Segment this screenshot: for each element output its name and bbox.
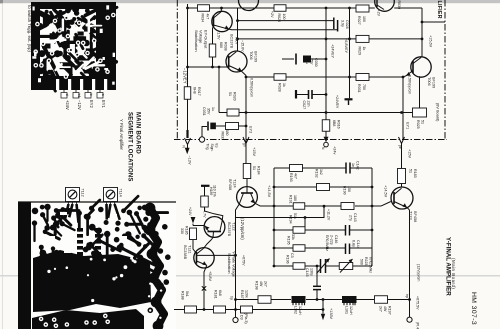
svg-text:C144: C144	[356, 240, 360, 249]
svg-text:gn: gn	[243, 143, 247, 147]
wire rail B x372	[371, 168, 373, 266]
svg-text:ye: ye	[398, 145, 402, 149]
resistor R038	[209, 44, 216, 57]
resistor R197 2k7 4W	[375, 296, 388, 304]
svg-text:C030: C030	[314, 58, 318, 67]
svg-text:4W: 4W	[383, 306, 387, 312]
wire divider line down to D3	[235, 218, 237, 318]
svg-text:EY1: EY1	[406, 122, 410, 129]
svg-text:R038: R038	[224, 42, 228, 51]
resistor R188	[185, 306, 197, 313]
wire T121 base row	[197, 254, 236, 256]
wire +6,8VEY rail	[349, 8, 351, 77]
resistor R026	[274, 5, 286, 12]
transistor T008 BF199	[403, 57, 431, 77]
wire ladder row5	[274, 229, 293, 231]
svg-text:(Pl.4): (Pl.4)	[416, 322, 420, 329]
svg-text:6B8: 6B8	[332, 120, 336, 126]
capacitor C028	[333, 18, 335, 30]
resistor R017 on -12V rail	[184, 87, 191, 100]
measuring point +5,8V	[202, 286, 206, 290]
resistor R029	[356, 35, 369, 42]
capacitor C027	[295, 90, 297, 99]
svg-text:C143: C143	[353, 213, 357, 222]
wire -12V rail vertical	[187, 4, 189, 131]
svg-text:R193: R193	[289, 173, 293, 182]
resistor R196	[293, 263, 305, 270]
svg-text:+2V: +2V	[377, 10, 381, 17]
diode point D4	[407, 317, 412, 322]
svg-text:d: d	[65, 94, 69, 96]
svg-text:ПЛ0,5MHz: ПЛ0,5MHz	[325, 235, 329, 251]
svg-text:180: 180	[293, 195, 297, 201]
svg-text:100: 100	[362, 16, 366, 22]
svg-text:R181: R181	[214, 290, 218, 299]
capacitor C029 on +6,8VEY rail	[349, 77, 351, 98]
node +135V junction lower	[322, 308, 325, 311]
svg-text:+24VEY: +24VEY	[335, 95, 339, 109]
wire ladder row7	[274, 265, 293, 267]
svg-text:BF458: BF458	[413, 211, 417, 222]
arrow +24V below border	[325, 131, 327, 137]
svg-text:27p: 27p	[349, 215, 353, 221]
wire T122 collector up to R189	[205, 207, 223, 221]
svg-text:(12Vpp/cm): (12Vpp/cm)	[240, 218, 245, 240]
svg-text:EY2: EY2	[249, 126, 253, 133]
resistor R184	[243, 164, 251, 179]
node T121 base tap	[234, 254, 237, 257]
wire pair upper	[238, 20, 334, 22]
wire pair lower	[231, 29, 337, 31]
wire T006 collector vertical	[237, 8, 239, 51]
wire base node to T006	[188, 66, 229, 68]
transistor T124 BF458	[237, 187, 258, 208]
wire T005 collector vertical	[421, 8, 423, 58]
svg-text:0,56Vpp/cm: 0,56Vpp/cm	[408, 75, 412, 94]
resistor R033	[226, 123, 239, 130]
resistor R198 2k7 4W	[258, 296, 271, 304]
capacitor C144	[345, 244, 347, 255]
wire ladder row1	[274, 167, 290, 169]
svg-text:25V: 25V	[310, 58, 314, 65]
svg-text:+135V: +135V	[329, 308, 333, 320]
svg-text:1k: 1k	[282, 83, 286, 87]
svg-text:T006: T006	[249, 51, 253, 60]
svg-text:6H8: 6H8	[193, 87, 197, 94]
wire R184 to T124	[246, 179, 248, 187]
svg-text:T006: T006	[427, 77, 431, 86]
connector chevron -12V rail	[186, 130, 188, 138]
pin net labels +24V -12V EY2 EY1	[65, 100, 106, 110]
svg-text:2k7: 2k7	[379, 306, 383, 312]
svg-text:680: 680	[219, 42, 223, 48]
svg-text:R016: R016	[337, 120, 341, 129]
svg-text:EY2: EY2	[89, 100, 94, 108]
svg-text:51: 51	[409, 169, 413, 173]
svg-text:1k2: 1k2	[319, 169, 323, 175]
svg-text:LIFIER: LIFIER	[436, 1, 442, 19]
node T121 emitter to bottom row	[203, 308, 206, 311]
node +135V junction upper	[322, 298, 325, 301]
svg-text:4k7: 4k7	[206, 14, 210, 20]
svg-text:3,9p: 3,9p	[341, 20, 345, 27]
svg-text:D3: D3	[240, 315, 244, 320]
svg-text:R197: R197	[388, 306, 392, 315]
svg-text:22n: 22n	[307, 101, 311, 107]
svg-text:T121: T121	[188, 245, 192, 254]
svg-text:R194: R194	[289, 215, 293, 224]
svg-text:R017: R017	[197, 87, 201, 96]
svg-text:Trig.: Trig.	[206, 144, 210, 151]
svg-text:C028: C028	[345, 20, 349, 29]
node +15,6V branch	[421, 21, 424, 24]
wire R031 row	[246, 76, 274, 78]
svg-text:100: 100	[282, 14, 286, 20]
svg-text:4W: 4W	[259, 281, 263, 287]
arrow +135V	[321, 314, 325, 321]
node junction -12V rail / T006 base wire	[186, 66, 189, 69]
svg-text:5k1: 5k1	[185, 291, 189, 297]
svg-text:+15V: +15V	[408, 149, 412, 158]
svg-text:+14,5V: +14,5V	[384, 185, 388, 198]
svg-text:+6,8VEY: +6,8VEY	[344, 38, 348, 54]
svg-text:R196: R196	[286, 255, 290, 264]
svg-text:10u: 10u	[305, 58, 309, 64]
resistor R193	[290, 165, 303, 172]
wire R020 row	[238, 112, 326, 114]
svg-text:C027: C027	[302, 101, 306, 110]
svg-text:(8V Board): (8V Board)	[436, 103, 440, 122]
resistor R016 on +24VEY rail	[322, 120, 330, 132]
svg-text:b: b	[89, 94, 93, 96]
svg-text:R191: R191	[289, 195, 293, 204]
svg-text:2–22p: 2–22p	[330, 235, 334, 245]
svg-text:Y Final Amplifier: Y Final Amplifier	[119, 119, 124, 151]
svg-text:2k7: 2k7	[264, 281, 268, 287]
wire emitter junction down	[402, 77, 404, 140]
resistor R187	[241, 306, 253, 313]
svg-text:+24V: +24V	[188, 207, 192, 216]
wire R029 row	[238, 38, 357, 40]
transistor T121 BC238B	[194, 248, 214, 268]
svg-text:(Main Board): (Main Board)	[451, 258, 456, 289]
svg-text:L101: L101	[345, 306, 349, 314]
svg-text:+24VEY: +24VEY	[331, 44, 335, 59]
node emitter to output row	[408, 298, 411, 301]
svg-text:trp: trp	[215, 144, 219, 148]
transistor T004 top edge	[239, 0, 259, 11]
capacitor C031 electrolytic	[207, 122, 209, 131]
svg-text:R185: R185	[185, 226, 189, 235]
svg-text:trp: trp	[405, 294, 409, 298]
node R029 row to T005 collector line	[421, 38, 424, 41]
trimmer T112	[66, 188, 85, 208]
trimmer T114	[104, 188, 123, 208]
svg-text:(Pla.3): (Pla.3)	[244, 313, 248, 324]
svg-text:R198: R198	[255, 281, 259, 290]
node upper row left	[234, 298, 237, 301]
svg-text:6,8p: 6,8p	[352, 240, 356, 247]
svg-text:+24v: +24v	[333, 146, 337, 154]
capacitor C145	[313, 285, 321, 287]
svg-text:Stabilisation: Stabilisation	[227, 253, 231, 273]
inductor L102	[292, 296, 306, 303]
svg-text:R029: R029	[358, 47, 362, 56]
trimmer resistor R223	[339, 259, 353, 273]
transistor T005 top edge	[375, 0, 395, 11]
wire R034 row	[188, 7, 198, 9]
svg-text:MAIN BOARD: MAIN BOARD	[135, 112, 141, 154]
resistor R195	[293, 245, 305, 252]
svg-text:500: 500	[360, 259, 364, 265]
capacitor above R189	[201, 185, 210, 187]
scanner top edge strip	[0, 0, 500, 3]
wire R038 to base rail node	[212, 57, 214, 67]
wire C030 row	[282, 58, 294, 60]
wire R185 to T121 base	[193, 240, 196, 254]
svg-text:−12V: −12V	[77, 100, 82, 110]
wire emitter line x246	[245, 76, 247, 167]
wire +24V to T122 emitter	[193, 225, 205, 227]
svg-text:120k: 120k	[245, 290, 249, 298]
svg-text:+2V: +2V	[270, 11, 274, 18]
svg-text:Y-Plate Voltage: Y-Plate Voltage	[232, 251, 236, 277]
wire T007 base to R038	[212, 28, 214, 46]
svg-text:R187: R187	[240, 290, 244, 299]
resistor R183	[398, 169, 406, 184]
left margin faint vertical line	[1, 3, 4, 329]
pin stubs a b b1 d below PCB segment	[61, 90, 105, 98]
svg-text:T122: T122	[232, 222, 236, 231]
arrow -12V	[187, 145, 189, 149]
node emitter junction	[402, 76, 405, 79]
svg-text:SEGMENT LOCATIONS: SEGMENT LOCATIONS	[127, 112, 133, 182]
svg-text:R033: R033	[221, 132, 225, 141]
svg-text:4k7: 4k7	[294, 173, 298, 179]
wire T121 collector to T122 base	[204, 238, 214, 249]
transistor T007 BC237B	[212, 8, 232, 32]
wire T124 emitter to ladder	[255, 203, 261, 206]
svg-text:−12VEY: −12VEY	[183, 68, 188, 84]
wire Trig pickoff to C031 row	[202, 127, 207, 137]
wire T124 collector down	[236, 204, 325, 217]
svg-text:12uH: 12uH	[298, 306, 302, 315]
svg-text:1k: 1k	[362, 47, 366, 51]
svg-text:R031: R031	[357, 84, 361, 93]
node C030 to rail	[325, 58, 328, 61]
svg-text:R183: R183	[413, 169, 417, 178]
resistor R185	[190, 228, 197, 240]
svg-text:130p: 130p	[310, 268, 314, 276]
svg-text:C031: C031	[202, 107, 206, 116]
Trig pickoff circle at border	[199, 137, 204, 142]
capacitor C142	[345, 163, 347, 174]
resistor R020	[227, 109, 239, 116]
resistor R034	[198, 5, 210, 12]
svg-text:R188: R188	[181, 291, 185, 300]
svg-text:R027: R027	[357, 16, 361, 25]
resistor R027	[356, 5, 369, 12]
wire top collector row	[222, 7, 275, 9]
svg-text:−12V: −12V	[188, 156, 192, 165]
node R029 row	[348, 38, 351, 41]
svg-text:+675V: +675V	[242, 255, 246, 266]
svg-text:R223: R223	[364, 257, 368, 265]
node +6,8VEY rail top	[348, 7, 351, 10]
board boundary dash-dot horizontal	[174, 139, 447, 141]
svg-text:BC238B: BC238B	[183, 245, 187, 260]
transistor T123 BF458	[391, 187, 413, 210]
svg-text:51: 51	[228, 92, 232, 96]
svg-text:150: 150	[347, 186, 351, 192]
svg-text:+11,2V: +11,2V	[327, 209, 331, 221]
svg-text:6k8: 6k8	[218, 290, 222, 296]
resistor R191	[293, 203, 305, 210]
svg-text:EY1: EY1	[101, 100, 106, 108]
node R033 to emitter line	[245, 125, 248, 128]
svg-text:b1: b1	[77, 94, 81, 98]
node R031 row	[348, 76, 351, 79]
svg-text:C142: C142	[356, 161, 360, 170]
transistor T006 BF199	[226, 51, 247, 76]
resistor R181	[214, 306, 226, 313]
capacitor C030 electrolytic	[295, 54, 297, 65]
svg-text:R030: R030	[397, 1, 401, 10]
node +24VEY rail top	[325, 7, 328, 10]
connector EY2	[243, 126, 249, 163]
svg-text:1n: 1n	[351, 163, 355, 167]
svg-text:BF458: BF458	[228, 179, 232, 190]
svg-text:BF199: BF199	[432, 77, 436, 88]
wire bottom row upper	[236, 299, 259, 301]
svg-text:BC237B: BC237B	[227, 222, 231, 237]
page fold light horizontal line	[0, 274, 500, 277]
capacitor C143	[345, 225, 347, 236]
node collector branch	[304, 216, 307, 219]
svg-text:51k: 51k	[293, 213, 297, 219]
diode point D3	[233, 317, 238, 322]
svg-text:HM 307-3: HM 307-3	[470, 292, 477, 325]
PCB segment bottom-left black border bar	[18, 203, 31, 329]
trimmer capacitor C146	[317, 259, 330, 274]
wire T121 emitter down	[204, 265, 207, 309]
resistor R031	[356, 74, 369, 81]
svg-text:35V: 35V	[207, 108, 211, 115]
svg-text:+5,8V: +5,8V	[208, 271, 212, 281]
wire +24VEY rail	[325, 8, 327, 120]
arrow +24V at T122	[191, 217, 196, 224]
wire T123 emitter down	[409, 210, 411, 317]
svg-text:Sign.: Sign.	[210, 144, 214, 152]
wire ladder row2	[274, 186, 316, 188]
svg-text:+675,5V: +675,5V	[416, 296, 420, 310]
resistor R028	[274, 74, 286, 81]
resistor R190	[341, 203, 354, 210]
svg-text:R025: R025	[416, 120, 420, 129]
svg-text:(12Vpp/cm: (12Vpp/cm	[417, 264, 421, 281]
wire R183 to T123	[401, 184, 403, 188]
svg-text:a: a	[101, 94, 105, 96]
PCB segment bottom-left frame line	[18, 201, 176, 203]
svg-text:330: 330	[180, 228, 184, 234]
svg-text:L102: L102	[294, 306, 298, 314]
inductor L101	[342, 296, 357, 303]
board boundary dash-dot vertical left	[176, 0, 178, 140]
node x246 R020 row	[245, 111, 248, 114]
svg-text:T124: T124	[233, 179, 237, 188]
resistor R025	[413, 108, 427, 117]
node on -12V rail top	[186, 7, 189, 10]
svg-text:+15V: +15V	[252, 147, 256, 156]
transistor T122 BC237B	[204, 217, 225, 238]
wire R020 branch	[218, 67, 220, 113]
svg-text:33k: 33k	[291, 234, 295, 240]
svg-text:R034: R034	[201, 14, 205, 23]
svg-text:C146: C146	[334, 235, 338, 243]
svg-text:680: 680	[225, 130, 229, 136]
svg-text:C145: C145	[305, 268, 309, 277]
svg-text:R195: R195	[287, 236, 291, 245]
wire rail A x274	[273, 168, 275, 266]
svg-text:H189: H189	[209, 187, 213, 195]
svg-text:R184: R184	[257, 166, 261, 175]
svg-text:R028: R028	[278, 83, 282, 92]
svg-text:1u: 1u	[211, 107, 215, 111]
svg-text:Y-FINAL AMPLIFIER: Y-FINAL AMPLIFIER	[445, 237, 452, 296]
PCB segment top-left (copper side)	[31, 2, 117, 91]
wire +15,6V branch to border	[422, 21, 445, 23]
svg-text:T114: T114	[119, 189, 123, 197]
svg-text:R190: R190	[343, 186, 347, 195]
svg-text:12uH: 12uH	[349, 306, 353, 315]
wire ladder row3 base row	[261, 205, 294, 207]
node +11,2V	[323, 205, 326, 208]
svg-text:+15,6V: +15,6V	[429, 35, 433, 48]
svg-text:51: 51	[421, 120, 425, 124]
svg-text:−15,6V: −15,6V	[241, 40, 245, 52]
PCB segment bottom-left (copper side)	[31, 196, 176, 329]
board boundary dash-dot vertical right	[444, 0, 446, 140]
svg-text:BC237B: BC237B	[230, 34, 234, 49]
wire ladder row6	[274, 247, 293, 249]
resistor R194	[293, 227, 305, 234]
svg-text:750: 750	[362, 84, 366, 90]
svg-text:C3: C3	[290, 253, 294, 258]
resistor R192	[317, 184, 330, 191]
wire +135V drop	[322, 300, 324, 314]
svg-text:Stabilisation: Stabilisation	[194, 30, 199, 52]
node C027 to rail	[325, 38, 328, 41]
svg-text:ПЛ0,5MHz: ПЛ0,5MHz	[369, 257, 373, 273]
resistor R189	[201, 196, 209, 207]
node T007 collector	[220, 7, 223, 10]
svg-text:T112: T112	[81, 189, 85, 197]
svg-text:trp: trp	[230, 296, 234, 300]
wire bottom row lower	[174, 309, 185, 311]
svg-text:−1,5V: −1,5V	[217, 30, 221, 40]
wire T008 to R025	[419, 76, 421, 108]
svg-text:R020: R020	[233, 92, 237, 101]
node divider at bottom row	[234, 308, 237, 311]
svg-text:BF199: BF199	[254, 51, 258, 62]
svg-text:51: 51	[252, 166, 256, 170]
connector EY1	[399, 137, 405, 168]
svg-text:0,56Vpp/cm: 0,56Vpp/cm	[250, 78, 254, 97]
svg-text:+24V: +24V	[65, 100, 70, 110]
svg-text:R192: R192	[315, 169, 319, 178]
wire branch to R194	[304, 218, 306, 231]
svg-text:+14,5V: +14,5V	[267, 185, 271, 198]
